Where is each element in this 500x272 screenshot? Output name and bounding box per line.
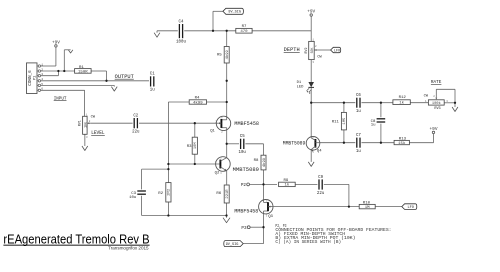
svg-text:C2: C2 <box>133 114 138 118</box>
svg-text:R9: R9 <box>283 179 288 183</box>
svg-text:MMBT5089: MMBT5089 <box>283 141 306 147</box>
svg-text:R4: R4 <box>195 97 200 101</box>
svg-text:RV3: RV3 <box>434 107 440 111</box>
svg-text:50K: 50K <box>310 48 314 54</box>
svg-text:Q1: Q1 <box>210 130 215 134</box>
svg-text:150R: 150R <box>78 70 88 74</box>
svg-text:R13: R13 <box>399 137 407 141</box>
svg-text:C7: C7 <box>356 134 361 138</box>
svg-text:4k99: 4k99 <box>225 49 230 59</box>
svg-text:R11: R11 <box>332 121 340 125</box>
svg-text:R12: R12 <box>399 96 407 100</box>
svg-text:MMBF5458: MMBF5458 <box>234 121 259 127</box>
svg-text:R2: R2 <box>158 192 163 196</box>
svg-text:C6: C6 <box>356 94 361 98</box>
svg-text:R3: R3 <box>187 145 192 149</box>
svg-text:D1: D1 <box>297 81 302 85</box>
svg-text:R10: R10 <box>363 201 371 205</box>
svg-text:1u: 1u <box>356 110 361 114</box>
svg-text:R5: R5 <box>217 53 222 57</box>
svg-text:rEAgenerated Tremolo Rev B: rEAgenerated Tremolo Rev B <box>3 231 149 246</box>
svg-text:10u: 10u <box>129 196 137 200</box>
svg-text:LFO: LFO <box>334 49 340 53</box>
svg-text:R7: R7 <box>242 25 247 29</box>
svg-text:4k99: 4k99 <box>193 100 203 105</box>
svg-text:15k: 15k <box>398 141 406 146</box>
svg-text:R6: R6 <box>216 192 221 196</box>
svg-text:MMBT5089: MMBT5089 <box>233 167 259 173</box>
svg-text:MMBF5458: MMBF5458 <box>234 208 258 214</box>
svg-text:C1: C1 <box>150 73 155 77</box>
svg-text:RV2: RV2 <box>304 48 308 54</box>
svg-text:9V_SIG: 9V_SIG <box>228 11 241 15</box>
svg-text:1M5: 1M5 <box>343 117 347 125</box>
svg-text:P1: P1 <box>33 75 37 80</box>
svg-text:+9V: +9V <box>430 127 438 132</box>
svg-text:P3: P3 <box>241 226 247 231</box>
svg-text:100k: 100k <box>432 101 442 106</box>
svg-text:10K: 10K <box>83 122 87 128</box>
svg-text:P2: P2 <box>241 183 247 188</box>
svg-text:Transmogrifox 2015: Transmogrifox 2015 <box>108 246 149 251</box>
svg-text:C) (A) IN SERIES WITH (B): C) (A) IN SERIES WITH (B) <box>275 240 341 245</box>
svg-text:Q4: Q4 <box>317 150 322 154</box>
svg-text:1k: 1k <box>399 101 404 106</box>
svg-text:470: 470 <box>240 30 248 34</box>
svg-text:10M: 10M <box>194 142 198 150</box>
svg-text:1k: 1k <box>284 183 289 188</box>
svg-text:1M: 1M <box>365 206 370 210</box>
svg-text:R8: R8 <box>254 159 259 163</box>
svg-text:C9: C9 <box>318 176 323 180</box>
svg-text:22u: 22u <box>132 131 140 135</box>
svg-text:C5: C5 <box>240 135 245 139</box>
svg-text:CONN_6: CONN_6 <box>28 70 33 86</box>
svg-text:+9V: +9V <box>52 40 60 45</box>
svg-text:2M2: 2M2 <box>168 188 172 196</box>
svg-text:C4: C4 <box>179 20 184 24</box>
svg-text:1u: 1u <box>356 150 361 154</box>
svg-text:100u: 100u <box>176 40 186 44</box>
svg-text:9V_SIG: 9V_SIG <box>226 243 239 247</box>
svg-text:LED: LED <box>297 86 305 90</box>
svg-text:1u: 1u <box>150 89 155 93</box>
svg-text:10u: 10u <box>239 151 247 155</box>
svg-text:221R: 221R <box>226 189 230 199</box>
svg-text:Q3: Q3 <box>268 215 273 219</box>
svg-text:LFO: LFO <box>407 206 413 210</box>
svg-text:+9V: +9V <box>307 9 315 14</box>
svg-text:RV1: RV1 <box>78 120 82 126</box>
svg-text:4k99: 4k99 <box>262 157 267 167</box>
svg-text:Q2: Q2 <box>215 171 220 175</box>
svg-text:1u: 1u <box>371 124 376 128</box>
svg-text:22u: 22u <box>317 192 325 196</box>
